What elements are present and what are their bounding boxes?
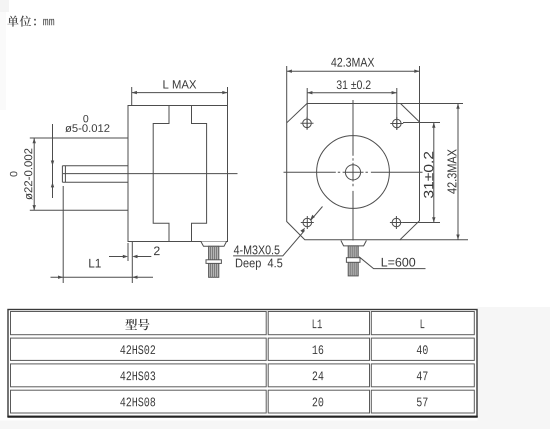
dimension 42.3MAX right (rotated)	[400, 104, 468, 240]
front view: pilot boss circle	[317, 136, 390, 209]
label: unit mm	[7, 16, 18, 27]
dimension phi22 with tolerance	[30, 138, 128, 210]
leader L=600	[359, 257, 425, 269]
table header: model column	[125, 319, 137, 330]
dimension L MAX	[132, 87, 228, 106]
front view: centerlines	[284, 171, 423, 173]
front view: lead-wire bundle	[341, 241, 367, 276]
front view: flange octagon outline	[287, 104, 420, 240]
table data	[120, 345, 155, 354]
dimension 31 +/-0.2 top	[307, 88, 397, 130]
side view: horizontal centerline	[63, 173, 238, 175]
front view: mounting holes	[303, 119, 312, 128]
table header: L1 / L	[313, 320, 322, 329]
table cell borders	[11, 312, 475, 414]
dimension 31 +/-0.2 right (rotated)	[403, 123, 440, 223]
dimension 2 : flange thickness	[109, 242, 151, 284]
page background tints	[0, 0, 6, 110]
leader 4-M3X0.5 Deep 4.5	[233, 207, 322, 256]
side view: lead-wire bundle	[201, 242, 227, 278]
dimension L1	[51, 186, 154, 283]
dimension 42.3MAX top	[287, 66, 420, 123]
front view: shaft circle	[345, 165, 360, 180]
table outer border	[8, 310, 477, 417]
dimension phi5 with tolerance	[52, 124, 54, 198]
side view: motor body outline	[128, 106, 228, 242]
side view: stator stack profile	[153, 106, 206, 242]
side view: shaft	[62, 166, 128, 183]
